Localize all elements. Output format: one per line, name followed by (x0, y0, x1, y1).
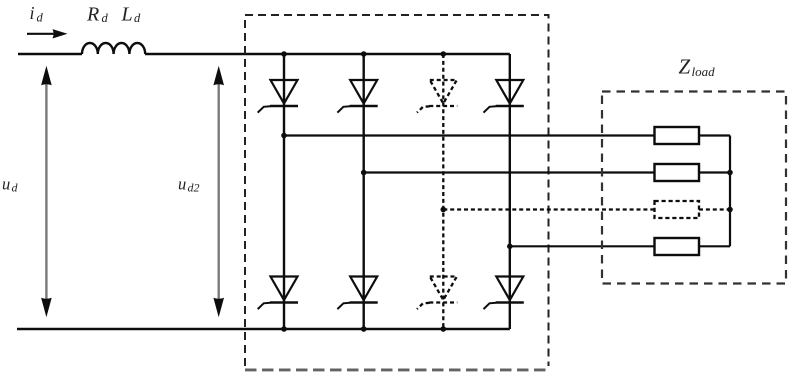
node: leg1 output (281, 133, 287, 139)
resistor Z4 (655, 238, 700, 255)
node: bus phase3 (727, 207, 733, 213)
wire: bottom dc rail (17, 328, 510, 330)
thyristor V4 (top, leg 4) (484, 80, 524, 113)
svg-text:L: L (121, 4, 133, 26)
wire: resistor 4 to bus (699, 245, 730, 247)
thyristor V8 (bottom, leg 4) (484, 277, 524, 310)
svg-text:d: d (134, 11, 141, 25)
label i_d (30, 3, 44, 25)
node: bottom rail leg3 (441, 326, 447, 332)
voltage arrow u_d (41, 66, 52, 317)
svg-text:d: d (12, 181, 19, 195)
thyristor V7 (bottom, leg 3, dotted) (417, 277, 457, 310)
node: top rail leg3 (441, 51, 447, 57)
label Z_load (679, 55, 716, 79)
wire: resistor 2 to bus (699, 171, 730, 173)
wire: bridge leg 3 vertical (dotted phase) (442, 54, 444, 329)
node: bottom rail leg2 (361, 326, 367, 332)
wire: output phase 4 (510, 245, 654, 247)
load dashed box Z_load (602, 92, 786, 284)
node: top rail leg2 (361, 51, 367, 57)
wire: bridge leg 4 vertical (509, 54, 511, 329)
node: top rail leg1 (281, 51, 287, 57)
svg-text:d2: d2 (188, 181, 200, 195)
wire: bridge leg 2 vertical (363, 54, 365, 329)
label L_d (121, 4, 142, 26)
wire: resistor 1 to bus (699, 134, 730, 136)
thyristor V3 (top, leg 3, dotted) (417, 80, 457, 113)
wire: top dc rail left of inductor (18, 53, 82, 55)
thyristor V5 (bottom, leg 1) (258, 277, 298, 310)
converter box bottom thick dashes (245, 368, 549, 371)
label u_d2 (178, 175, 200, 195)
thyristor V6 (bottom, leg 2) (337, 277, 377, 310)
label u_d (2, 175, 19, 195)
svg-text:d: d (37, 11, 44, 25)
node: leg3 output (441, 207, 447, 213)
wire: load bus vertical (729, 136, 731, 247)
resistor Z3 (dashed) (655, 201, 700, 218)
resistor Z2 (655, 164, 700, 181)
wire: resistor 3 to bus (dotted) (699, 208, 730, 210)
node: bottom rail leg1 (281, 326, 287, 332)
resistor Z1 (655, 127, 700, 144)
svg-text:u: u (2, 175, 10, 194)
svg-text:load: load (692, 64, 716, 79)
node: leg2 output (361, 170, 367, 176)
wire: top dc rail right of inductor (145, 53, 510, 55)
thyristor V1 (top, leg 1) (258, 80, 298, 113)
svg-text:d: d (102, 11, 109, 25)
label R_d (86, 4, 109, 26)
thyristor V2 (top, leg 2) (337, 80, 377, 113)
svg-text:u: u (178, 175, 186, 194)
svg-text:R: R (86, 4, 99, 26)
converter dashed box (245, 15, 549, 366)
node: leg4 output (507, 244, 513, 250)
wire: output phase 1 (284, 134, 654, 136)
wire: bridge leg 1 vertical (283, 54, 285, 329)
current arrow i_d (27, 29, 68, 38)
wire: output phase 3 (dotted) (443, 208, 654, 210)
node: bus phase2 (727, 170, 733, 176)
voltage arrow u_d2 (213, 66, 224, 317)
svg-text:Z: Z (679, 55, 691, 79)
inductor R_d L_d (82, 43, 145, 54)
svg-text:i: i (30, 3, 35, 23)
wire: output phase 2 (364, 171, 654, 173)
